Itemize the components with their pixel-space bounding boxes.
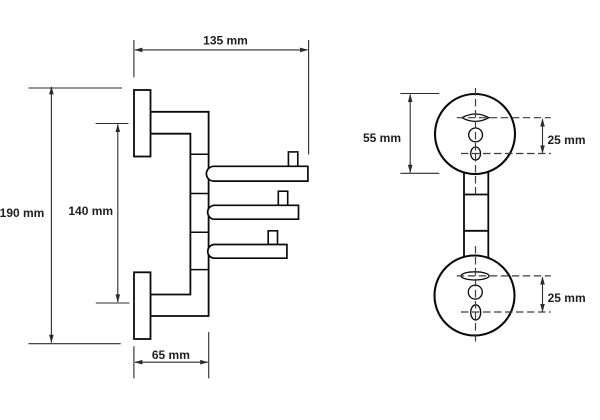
- svg-text:65 mm: 65 mm: [152, 348, 190, 362]
- wall plate bottom: [134, 272, 151, 339]
- hook peg 3: [268, 231, 277, 245]
- svg-text:25 mm: 25 mm: [548, 291, 586, 305]
- wall plate top: [134, 90, 151, 157]
- connecting bar: [464, 166, 488, 261]
- hook peg 1: [288, 152, 297, 166]
- svg-text:190 mm: 190 mm: [0, 206, 44, 220]
- svg-text:55 mm: 55 mm: [363, 131, 401, 145]
- top screw hole: [469, 128, 483, 142]
- top slot (lens): [462, 114, 489, 121]
- bottom lower hole (ellipse): [471, 305, 481, 320]
- svg-text:25 mm: 25 mm: [548, 133, 586, 147]
- hook arm 2: [208, 205, 299, 219]
- svg-text:135 mm: 135 mm: [203, 34, 248, 48]
- center/axis dashed lines: [457, 88, 551, 344]
- post division lines: [190, 154, 208, 269]
- hook arm 3: [208, 245, 287, 259]
- top round plate: [435, 94, 515, 174]
- bracket: top arm + post + bottom arm: [151, 112, 209, 316]
- bottom screw hole: [468, 285, 482, 299]
- bottom slot (ellipse): [461, 272, 489, 280]
- top lower hole (ellipse): [471, 147, 481, 160]
- svg-text:140 mm: 140 mm: [68, 204, 113, 218]
- bottom round plate: [435, 256, 515, 336]
- hook arm 1: [206, 166, 308, 181]
- hook peg 2: [278, 191, 287, 205]
